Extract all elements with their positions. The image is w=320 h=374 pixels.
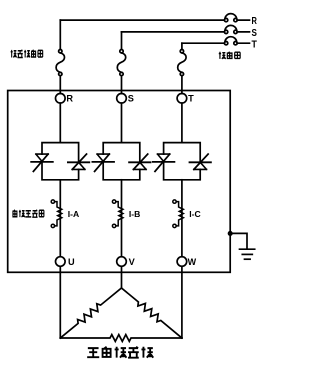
svg-text:R: R xyxy=(252,15,258,27)
svg-text:I-A: I-A xyxy=(68,209,79,219)
svg-text:T: T xyxy=(188,94,194,104)
svg-text:U: U xyxy=(68,257,75,267)
svg-text:T: T xyxy=(252,38,258,50)
svg-text:V: V xyxy=(129,257,136,267)
svg-text:W: W xyxy=(188,257,197,267)
svg-text:S: S xyxy=(252,27,257,39)
svg-text:I-C: I-C xyxy=(189,209,200,219)
svg-text:S: S xyxy=(128,94,134,104)
svg-text:R: R xyxy=(66,94,73,104)
svg-text:I-B: I-B xyxy=(129,209,140,219)
